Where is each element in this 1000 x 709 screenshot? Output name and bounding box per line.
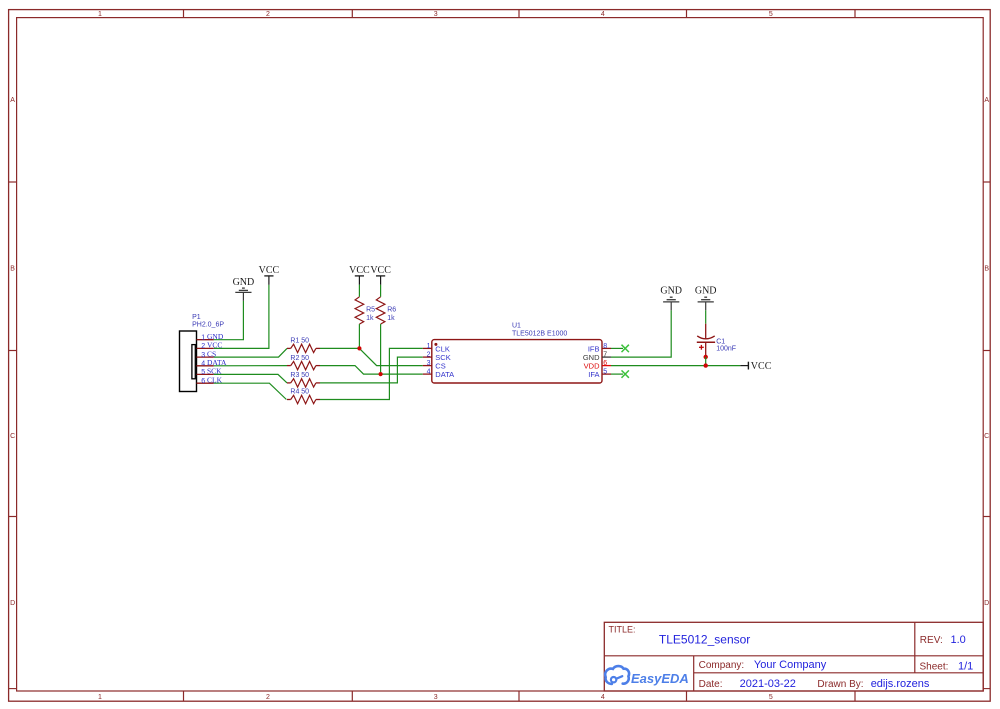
resistor R2 50	[287, 365, 291, 367]
svg-text:TLE5012_sensor: TLE5012_sensor	[659, 633, 750, 647]
svg-text:3: 3	[434, 11, 438, 18]
svg-text:1: 1	[201, 334, 205, 341]
svg-text:D: D	[10, 600, 15, 607]
resistor R3 50	[287, 382, 291, 384]
junction A dot	[357, 346, 361, 350]
svg-text:2: 2	[427, 352, 431, 359]
svg-text:GND: GND	[233, 277, 255, 288]
wire U1 pin5 stub	[611, 373, 623, 375]
wire pin1 GND net	[214, 301, 244, 340]
resistor R1 50	[287, 347, 291, 349]
op-amp U1 body TLE5012B	[432, 340, 602, 383]
no-connect X pin5 IFA	[622, 370, 629, 377]
U1 pin 7 GND	[602, 356, 611, 358]
svg-text:B: B	[984, 266, 989, 273]
svg-text:2: 2	[201, 343, 205, 350]
svg-text:Company:: Company:	[699, 660, 745, 671]
svg-text:5: 5	[769, 11, 773, 18]
svg-text:DATA: DATA	[435, 370, 454, 379]
wire pin4 DATA to R2	[214, 365, 287, 367]
svg-text:R4 50: R4 50	[290, 389, 309, 396]
wire C1 to VDD net	[705, 357, 707, 366]
svg-text:1/1: 1/1	[958, 660, 973, 672]
svg-text:2: 2	[266, 11, 270, 18]
svg-text:Your Company: Your Company	[754, 659, 827, 671]
svg-text:5: 5	[603, 369, 607, 376]
svg-text:TLE5012B E1000: TLE5012B E1000	[512, 331, 567, 338]
svg-text:4: 4	[427, 369, 431, 376]
wire R1 to junction A	[320, 347, 359, 349]
P1 pin 1	[197, 339, 214, 341]
svg-text:1k: 1k	[387, 315, 395, 322]
wire junction A to U1 CS pin3	[359, 348, 422, 365]
svg-text:edijs.rozens: edijs.rozens	[871, 678, 930, 690]
svg-text:3: 3	[434, 694, 438, 701]
wire pin3 CS to R1	[214, 348, 287, 357]
wire U1 pin7 GND net	[611, 310, 671, 357]
U1 pin1 indicator dot	[434, 343, 437, 346]
svg-text:EasyEDA: EasyEDA	[631, 671, 689, 686]
svg-text:VCC: VCC	[259, 265, 280, 276]
U1 pin 3 CS	[423, 365, 432, 367]
svg-text:B: B	[10, 266, 15, 273]
svg-text:A: A	[984, 97, 989, 104]
svg-text:1: 1	[98, 694, 102, 701]
svg-text:5: 5	[201, 369, 205, 376]
wire R2 to U1 DATA pin4	[320, 366, 423, 375]
svg-text:TITLE:: TITLE:	[609, 625, 636, 635]
junction C1 VDD dot	[704, 363, 708, 367]
wire R5 to junction A	[358, 324, 360, 348]
svg-text:P1: P1	[192, 314, 201, 321]
wire R3 to U1 SCK pin2	[320, 357, 423, 383]
svg-text:U1: U1	[512, 323, 521, 330]
svg-text:5: 5	[769, 694, 773, 701]
svg-text:7: 7	[603, 352, 607, 359]
resistor R5 1k	[355, 297, 364, 324]
svg-text:R1 50: R1 50	[290, 338, 309, 345]
U1 pin 5 IFA	[602, 373, 611, 375]
P1 pin 5	[197, 373, 214, 375]
no-connect X pin8 IFB	[622, 345, 629, 352]
svg-text:2: 2	[266, 694, 270, 701]
svg-text:4: 4	[601, 11, 605, 18]
wire pin5 SCK to R3	[214, 374, 287, 383]
svg-text:100nF: 100nF	[716, 345, 736, 352]
wire R4 to U1 CLK pin1	[320, 348, 423, 399]
wire VCC to R5	[358, 285, 360, 297]
junction C1 top dot	[704, 355, 708, 359]
wire U1 pin6 VDD net	[611, 365, 740, 367]
C1 polarity plus sign	[699, 346, 704, 348]
svg-text:1: 1	[427, 343, 431, 350]
capacitor C1 100nF	[705, 324, 707, 339]
svg-text:VCC: VCC	[751, 361, 772, 372]
P1 pin 2	[197, 347, 214, 349]
svg-text:1.0: 1.0	[951, 634, 966, 646]
svg-text:6: 6	[603, 360, 607, 367]
svg-text:A: A	[10, 97, 15, 104]
svg-text:CLK: CLK	[435, 344, 450, 353]
svg-text:GND: GND	[660, 285, 682, 296]
svg-text:6: 6	[201, 378, 205, 385]
P1 pin 6	[197, 382, 214, 384]
resistor R6 1k	[376, 297, 385, 324]
svg-text:3: 3	[427, 360, 431, 367]
svg-text:VCC: VCC	[370, 265, 391, 276]
wire U1 pin8 stub	[611, 347, 623, 349]
U1 pin 8 IFB	[602, 347, 611, 349]
svg-text:1: 1	[98, 11, 102, 18]
U1 pin 2 SCK	[423, 356, 432, 358]
svg-text:Date:: Date:	[699, 679, 723, 690]
svg-text:2021-03-22: 2021-03-22	[740, 678, 796, 690]
svg-text:GND: GND	[695, 285, 717, 296]
svg-text:Drawn By:: Drawn By:	[817, 679, 863, 690]
U1 pin 1 CLK	[423, 347, 432, 349]
svg-text:Sheet:: Sheet:	[920, 661, 949, 672]
svg-text:REV:: REV:	[920, 635, 943, 646]
svg-text:R5: R5	[366, 307, 375, 314]
svg-text:1k: 1k	[366, 315, 374, 322]
svg-text:VCC: VCC	[349, 265, 370, 276]
svg-text:3: 3	[201, 352, 205, 359]
wire pin6 CLK to R4	[214, 383, 287, 399]
svg-text:4: 4	[201, 361, 205, 368]
power VCC flag right	[740, 365, 748, 367]
wire R6 to junction B	[380, 324, 382, 374]
svg-text:R6: R6	[387, 307, 396, 314]
U1 pin 6 VDD	[602, 365, 611, 367]
title block	[604, 622, 983, 691]
wire pin2 VCC net	[214, 285, 269, 349]
resistor R4 50	[287, 399, 291, 401]
P1 pin 4	[197, 365, 214, 367]
svg-text:IFA: IFA	[588, 370, 599, 379]
svg-text:D: D	[984, 600, 989, 607]
svg-text:IFB: IFB	[588, 344, 600, 353]
svg-text:R2 50: R2 50	[290, 355, 309, 362]
svg-text:C: C	[984, 433, 989, 440]
U1 pin 4 DATA	[423, 373, 432, 375]
junction B dot	[379, 372, 383, 376]
P1 pin 3	[197, 356, 214, 358]
svg-text:PH2.0_6P: PH2.0_6P	[192, 322, 224, 329]
wire VCC to R6	[380, 285, 382, 297]
svg-text:R3 50: R3 50	[290, 372, 309, 379]
EasyEDA logo	[605, 666, 629, 684]
svg-text:C: C	[10, 433, 15, 440]
svg-text:8: 8	[603, 343, 607, 350]
svg-text:4: 4	[601, 694, 605, 701]
connector P1	[180, 331, 197, 392]
wire GND to C1	[705, 310, 707, 323]
